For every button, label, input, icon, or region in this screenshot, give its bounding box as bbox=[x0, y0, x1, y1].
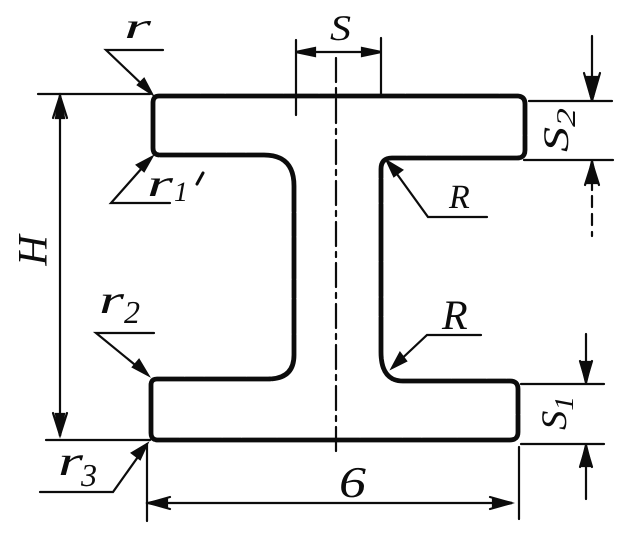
svg-text:1: 1 bbox=[174, 177, 188, 208]
leader R top bbox=[389, 163, 487, 217]
dimension s2 arrowhead down bbox=[586, 77, 598, 101]
svg-text:H: H bbox=[9, 233, 55, 267]
dimension s1 line upper bbox=[585, 334, 587, 381]
dimension S extension line right bbox=[380, 38, 382, 95]
dimension H arrowhead top bbox=[56, 95, 64, 118]
dimension s2 extension line top bbox=[529, 100, 612, 102]
dimension S extension line left bbox=[295, 40, 297, 115]
leader r bbox=[106, 50, 163, 91]
svg-text:3: 3 bbox=[80, 457, 97, 493]
svg-text:S1: S1 bbox=[534, 396, 579, 430]
svg-text:r: r bbox=[147, 163, 173, 205]
center line of web bbox=[335, 58, 337, 454]
svg-text:R: R bbox=[448, 179, 470, 216]
leader r3 bbox=[40, 447, 145, 492]
leader R bottom bbox=[394, 335, 481, 366]
dimension s2 line lower dashed tail bbox=[591, 196, 593, 236]
dimension S arrowhead right bbox=[362, 48, 381, 56]
leader R bottom arrowhead bbox=[392, 353, 406, 368]
beam profile outline bbox=[151, 96, 525, 440]
dimension S line bbox=[298, 51, 379, 53]
stray tick mark bbox=[197, 173, 203, 184]
dimension S arrowhead left bbox=[296, 48, 315, 56]
svg-text:6: 6 bbox=[339, 458, 366, 507]
leader r2 arrowhead bbox=[133, 360, 148, 375]
dimension B arrowhead left bbox=[148, 499, 167, 507]
dimension s2 extension line bottom bbox=[524, 159, 613, 161]
dimension H extension line bottom bbox=[46, 439, 150, 441]
dimension H line bbox=[59, 98, 61, 435]
dimension B arrowhead right bbox=[493, 499, 512, 507]
svg-text:R: R bbox=[441, 293, 468, 339]
dimension s1 arrowhead up bbox=[581, 445, 591, 466]
svg-text:r: r bbox=[99, 277, 125, 322]
dimension H arrowhead bottom bbox=[56, 414, 64, 436]
leader r1 bbox=[111, 159, 170, 203]
leader r arrowhead bbox=[138, 79, 152, 94]
svg-text:2: 2 bbox=[124, 294, 140, 330]
leader r2 bbox=[96, 333, 154, 373]
dimension s1 extension line bottom bbox=[521, 443, 604, 445]
leader r1 arrowhead bbox=[137, 157, 152, 171]
dimension s2 line lower bbox=[591, 163, 593, 190]
dimension B extension line left bbox=[146, 444, 148, 521]
dimension s1 line lower bbox=[585, 446, 587, 499]
svg-text:r: r bbox=[124, 6, 153, 46]
leader R top arrowhead bbox=[387, 161, 402, 176]
dimension s1 extension line top bbox=[521, 383, 604, 385]
svg-text:S: S bbox=[330, 8, 351, 48]
dimension B line bbox=[150, 502, 511, 504]
dimension B extension line right bbox=[518, 447, 520, 519]
dimension s2 arrowhead up bbox=[587, 161, 597, 183]
dimension s1 arrowhead down bbox=[581, 362, 591, 383]
dimension s2 line upper bbox=[591, 36, 593, 98]
leader r3 arrowhead bbox=[132, 444, 147, 459]
svg-text:S2: S2 bbox=[536, 108, 581, 152]
dimension H extension line top bbox=[38, 93, 150, 95]
